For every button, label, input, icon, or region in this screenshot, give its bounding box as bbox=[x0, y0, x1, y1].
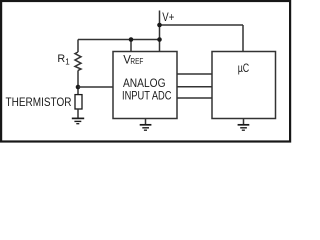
svg-text:INPUT ADC: INPUT ADC bbox=[122, 90, 172, 102]
svg-text:THERMISTOR: THERMISTOR bbox=[6, 95, 72, 109]
microcontroller uC box bbox=[212, 52, 276, 119]
wire V+ vertical stub bbox=[159, 11, 161, 52]
wire down to uC top pin bbox=[242, 25, 244, 52]
wire VREF pin drop bbox=[130, 40, 132, 52]
wire V+ to uC horizontal bbox=[160, 24, 244, 26]
wire ADC to uC bus line 1 bbox=[177, 73, 212, 75]
wire ADC to uC bus line 3 bbox=[177, 97, 212, 99]
wire R1 top to V+ line bbox=[78, 39, 160, 41]
junction dot thermistor node bbox=[76, 85, 81, 90]
ADC box bbox=[113, 52, 177, 119]
junction dot V+/R1 wire bbox=[157, 37, 162, 42]
wire thermistor node to ADC input bbox=[78, 86, 113, 88]
thermistor body bbox=[75, 95, 82, 109]
wire thermistor to ground bbox=[77, 109, 79, 118]
ground (ADC) bbox=[140, 125, 152, 130]
svg-text:µC: µC bbox=[238, 63, 250, 75]
svg-text:ANALOG: ANALOG bbox=[123, 78, 166, 90]
wire uC ground stub bbox=[243, 119, 245, 125]
resistor R1 bbox=[75, 40, 81, 95]
svg-text:R: R bbox=[57, 53, 65, 65]
svg-text:V+: V+ bbox=[162, 12, 174, 24]
junction dot VREF drop bbox=[129, 37, 134, 42]
wire ADC ground stub bbox=[145, 119, 147, 125]
ground (thermistor) bbox=[72, 118, 84, 123]
ground (uC) bbox=[238, 125, 250, 130]
wire ADC to uC bus line 2 bbox=[177, 86, 212, 88]
junction dot V+/uC bbox=[157, 23, 162, 28]
svg-text:REF: REF bbox=[130, 56, 143, 66]
svg-text:1: 1 bbox=[65, 57, 70, 66]
